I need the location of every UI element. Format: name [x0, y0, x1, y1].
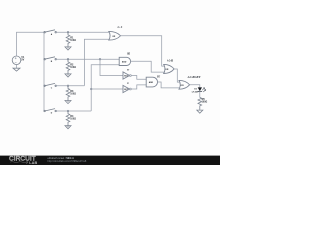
and-gate AND1 (BD)	[119, 57, 130, 65]
LED1	[198, 87, 202, 91]
svg-text:B: B	[51, 61, 53, 63]
svg-text:AND: AND	[149, 81, 154, 84]
svg-text:B'D': B'D'	[157, 75, 160, 78]
svg-text:A+C+BD+B'D': A+C+BD+B'D'	[188, 76, 201, 79]
voltage source V1	[12, 56, 21, 65]
svg-text:C: C	[51, 88, 53, 90]
svg-text:OR: OR	[165, 69, 169, 71]
wire NOT2 out to AND2 bottom input	[131, 85, 146, 89]
wire AND1 out to OR2 bottom input	[131, 61, 164, 72]
wire OR2 out to OR3 top input	[174, 69, 179, 82]
and-gate AND2 (B'D')	[146, 77, 157, 87]
node row D / R4	[67, 110, 69, 112]
ground R5	[197, 110, 203, 113]
node D branch	[90, 88, 92, 90]
or-gate OR3 (A+C+BD+B'D')	[179, 80, 190, 89]
svg-text:OR: OR	[181, 85, 185, 87]
svg-text:A + C: A + C	[118, 25, 123, 29]
V1 label	[21, 56, 25, 62]
resistor R1	[66, 32, 70, 48]
svg-text:A: A	[51, 33, 53, 36]
node row C / R3	[67, 85, 69, 87]
resistor R4	[66, 111, 70, 127]
not-gate NOT1 (B')	[123, 72, 130, 79]
svg-text:B': B'	[127, 70, 129, 72]
wire LED to R5	[199, 91, 201, 97]
not-gate NOT2 (D')	[123, 85, 130, 92]
node row A / R1	[67, 31, 69, 33]
ground V1	[13, 68, 20, 71]
svg-text:A+C+BD: A+C+BD	[167, 59, 173, 62]
wire left bus	[43, 32, 45, 111]
svg-text:100Ω: 100Ω	[70, 93, 76, 96]
wire OR1 out to OR2 top input	[121, 36, 164, 66]
LED arrows	[202, 88, 205, 91]
wire B to NOT1 input	[100, 59, 123, 75]
svg-text:LT-529: LT-529	[192, 91, 199, 93]
wire D up to AND1 lower input	[91, 65, 119, 111]
wire OR3 out to LED	[190, 85, 200, 88]
svg-text:100Ω: 100Ω	[70, 66, 76, 69]
switch SW_D	[44, 109, 57, 112]
wire row C	[56, 85, 85, 87]
svg-text:http://circuitlab.com/c7298wv4: http://circuitlab.com/c7298wv47vs8	[48, 160, 87, 163]
or-gate OR2 (A+C+BD)	[164, 64, 174, 73]
wire row A	[56, 31, 109, 33]
resistor R2	[66, 59, 70, 75]
logo flourish	[10, 161, 26, 164]
wire C up to OR1 lower input	[84, 39, 109, 86]
wire D to NOT2 input	[91, 88, 123, 90]
svg-text:100Ω: 100Ω	[70, 39, 76, 42]
switch SW_A	[44, 30, 57, 33]
switch SW_B	[44, 57, 57, 60]
svg-text:LAB: LAB	[29, 161, 37, 165]
svg-text:100Ω: 100Ω	[202, 100, 208, 103]
wire row D	[56, 110, 91, 112]
resistor R3	[66, 86, 70, 102]
svg-text:BD: BD	[127, 51, 130, 55]
ground R3	[65, 101, 71, 104]
node row B / R2	[67, 58, 69, 60]
ground R4	[65, 126, 71, 129]
ground R1	[65, 47, 71, 50]
or-gate OR1 (A+C)	[109, 31, 121, 40]
wire V1 bottom	[16, 65, 18, 69]
wire AND2 out to OR3 bottom input	[158, 82, 180, 88]
ground R2	[65, 74, 71, 77]
wire V1 top to row A	[17, 32, 45, 56]
switch SW_C	[44, 83, 57, 86]
svg-text:D: D	[51, 113, 53, 115]
svg-text:OR: OR	[112, 36, 116, 38]
wire row B	[56, 58, 119, 60]
logo bolt	[26, 161, 28, 164]
svg-text:D1: D1	[194, 88, 198, 90]
node B branch	[99, 58, 101, 60]
svg-text:AND: AND	[122, 61, 127, 64]
svg-text:5V: 5V	[21, 59, 24, 62]
svg-text:100Ω: 100Ω	[70, 118, 76, 121]
watermark bar	[0, 156, 220, 165]
wire NOT1 out to AND2 top input	[131, 76, 146, 80]
svg-text:D': D'	[127, 83, 129, 85]
resistor R5	[198, 97, 202, 109]
